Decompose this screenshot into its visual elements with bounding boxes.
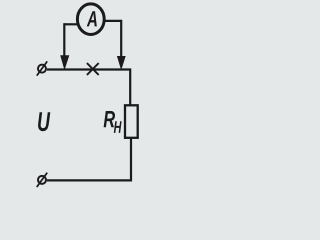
terminal (top left)	[37, 61, 47, 75]
resistor RH body	[125, 105, 138, 138]
resistor label subscript H	[114, 121, 122, 133]
terminal (bottom left)	[37, 173, 47, 187]
wire: right drop from ammeter	[120, 20, 122, 58]
wire: top horizontal + right vertical down to resistor	[47, 70, 130, 106]
arrowhead left onto top wire	[60, 55, 69, 70]
resistor label R	[104, 111, 115, 127]
ammeter A1 circle	[77, 4, 104, 35]
breaking-point cross X on top wire	[87, 63, 99, 75]
source voltage label U	[38, 112, 50, 131]
arrowhead right onto top wire	[117, 56, 126, 70]
ammeter label A	[87, 11, 97, 26]
wire: left drop from ammeter	[63, 23, 65, 58]
wire: ammeter right stub	[105, 20, 122, 22]
wire: ammeter left stub	[64, 23, 78, 25]
wire: resistor bottom to bottom wire	[47, 138, 131, 181]
